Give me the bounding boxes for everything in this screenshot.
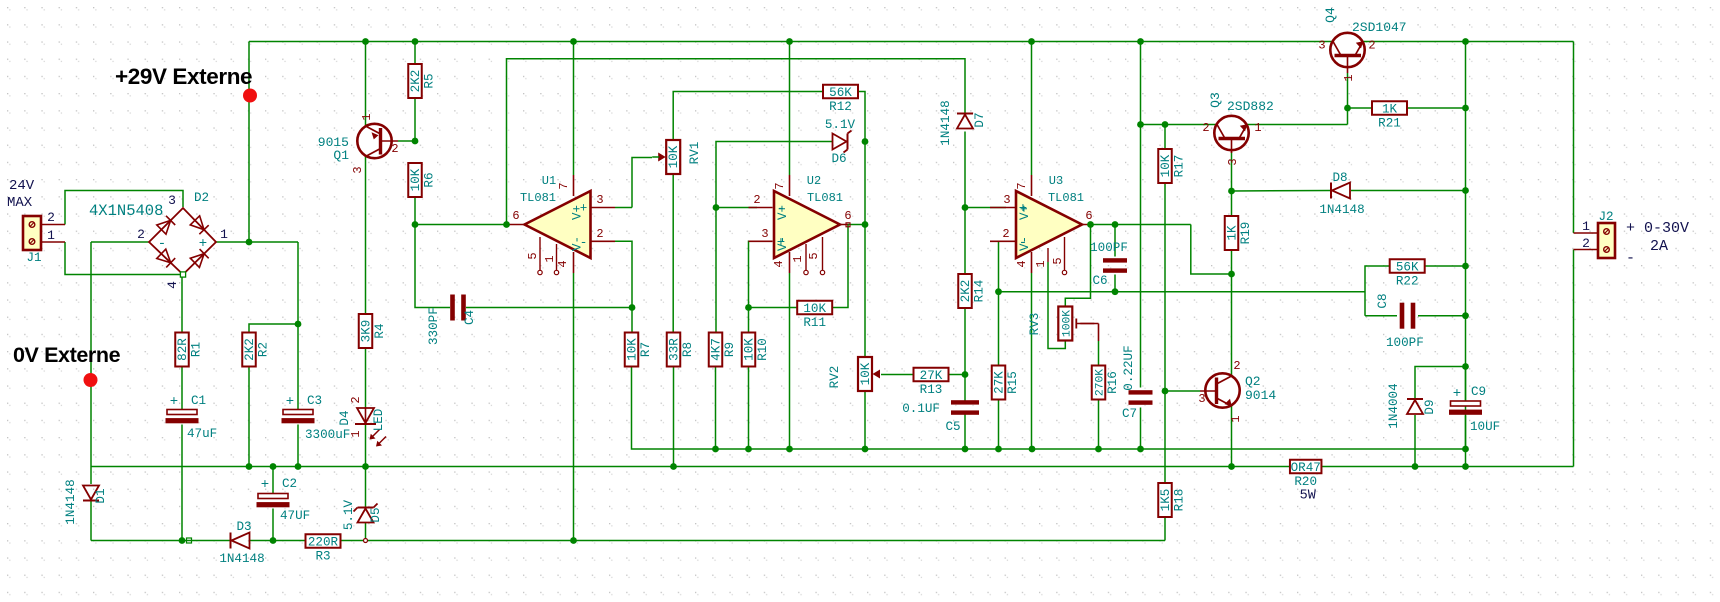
svg-text:1: 1 [1582, 219, 1590, 234]
svg-text:1: 1 [47, 228, 55, 243]
svg-text:+: + [777, 235, 785, 251]
svg-text:R4: R4 [373, 323, 387, 338]
svg-text:TL081: TL081 [1048, 191, 1084, 205]
svg-text:6: 6 [844, 209, 851, 223]
svg-text:2K2: 2K2 [409, 70, 423, 93]
svg-text:TL081: TL081 [520, 191, 556, 205]
svg-text:+: + [170, 394, 178, 410]
svg-text:10K: 10K [743, 338, 757, 361]
svg-text:-: - [158, 236, 166, 252]
svg-text:R8: R8 [681, 342, 695, 357]
svg-text:3: 3 [1318, 39, 1325, 53]
svg-text:3: 3 [1003, 193, 1010, 207]
svg-text:1K: 1K [1382, 103, 1398, 117]
svg-text:4K7: 4K7 [710, 338, 724, 361]
svg-text:R9: R9 [723, 342, 737, 357]
svg-text:3: 3 [168, 193, 176, 208]
svg-text:R1: R1 [190, 342, 204, 357]
svg-text:100PF: 100PF [1386, 336, 1424, 350]
svg-text:2: 2 [391, 142, 398, 156]
svg-text:C3: C3 [307, 394, 322, 408]
svg-text:C6: C6 [1092, 274, 1107, 288]
svg-text:6: 6 [1085, 209, 1092, 223]
svg-text:5.1V: 5.1V [825, 118, 856, 132]
svg-text:D8: D8 [1332, 171, 1347, 185]
svg-text:220R: 220R [308, 536, 339, 550]
svg-text:3: 3 [761, 227, 768, 241]
svg-text:D2: D2 [194, 191, 209, 205]
svg-text:1: 1 [220, 227, 228, 242]
svg-text:4: 4 [556, 260, 570, 267]
svg-text:7: 7 [1015, 182, 1029, 189]
svg-text:R10: R10 [756, 338, 770, 361]
svg-text:10K: 10K [1159, 154, 1173, 177]
svg-text:+: + [261, 477, 269, 493]
svg-text:-: - [1019, 235, 1027, 251]
svg-text:+: + [199, 236, 207, 252]
svg-text:10K: 10K [409, 168, 423, 191]
svg-text:5.1V: 5.1V [342, 499, 356, 530]
svg-text:2: 2 [1368, 39, 1375, 53]
svg-text:C5: C5 [945, 420, 960, 434]
svg-text:1N4148: 1N4148 [1319, 203, 1364, 217]
svg-text:R3: R3 [315, 549, 330, 563]
svg-text:6: 6 [512, 209, 519, 223]
svg-text:2: 2 [137, 227, 145, 242]
svg-text:1: 1 [543, 255, 557, 262]
svg-text:5W: 5W [1300, 488, 1317, 503]
svg-text:7: 7 [773, 182, 787, 189]
svg-text:R18: R18 [1173, 489, 1187, 512]
svg-text:1: 1 [791, 255, 805, 262]
svg-text:9014: 9014 [1245, 388, 1276, 403]
svg-text:2SD1047: 2SD1047 [1352, 20, 1407, 35]
svg-text:U1: U1 [542, 174, 556, 188]
svg-text:330PF: 330PF [427, 307, 441, 345]
svg-text:3300uF: 3300uF [305, 428, 350, 442]
svg-text:0.1UF: 0.1UF [902, 402, 940, 416]
svg-text:3: 3 [351, 166, 365, 173]
svg-text:1N4004: 1N4004 [1387, 383, 1401, 428]
svg-text:D3: D3 [236, 520, 251, 534]
svg-text:4: 4 [1015, 260, 1029, 267]
svg-text:C8: C8 [1376, 293, 1390, 308]
svg-text:2K2: 2K2 [959, 280, 973, 303]
svg-text:1K5: 1K5 [1159, 489, 1173, 512]
svg-text:D4: D4 [338, 410, 352, 425]
svg-text:+: + [1019, 201, 1027, 217]
svg-text:-: - [777, 201, 785, 217]
svg-text:Q3: Q3 [1208, 92, 1223, 108]
svg-text:10K: 10K [667, 145, 681, 168]
svg-text:D7: D7 [973, 112, 987, 127]
svg-text:56K: 56K [1396, 261, 1419, 275]
svg-text:+ 0-30V: + 0-30V [1626, 220, 1689, 237]
svg-text:Q2: Q2 [1245, 374, 1261, 389]
svg-text:C1: C1 [191, 394, 206, 408]
svg-text:2: 2 [1233, 359, 1240, 373]
svg-text:1: 1 [349, 430, 363, 437]
svg-text:0V Externe: 0V Externe [13, 343, 121, 367]
svg-text:R11: R11 [803, 316, 826, 330]
svg-text:2: 2 [1202, 121, 1209, 135]
svg-text:R6: R6 [423, 172, 437, 187]
svg-text:2: 2 [596, 227, 603, 241]
svg-text:100K: 100K [1061, 310, 1073, 337]
svg-text:3: 3 [596, 193, 603, 207]
svg-text:3: 3 [1198, 392, 1205, 406]
svg-text:2SD882: 2SD882 [1227, 99, 1274, 114]
svg-text:R22: R22 [1396, 274, 1419, 288]
svg-text:MAX: MAX [7, 195, 33, 211]
svg-text:R12: R12 [829, 100, 852, 114]
svg-text:RV1: RV1 [688, 142, 702, 165]
svg-text:R17: R17 [1173, 155, 1187, 178]
svg-text:U2: U2 [807, 174, 821, 188]
svg-text:OR47: OR47 [1291, 461, 1321, 475]
svg-text:1: 1 [1254, 121, 1261, 135]
svg-text:U3: U3 [1049, 174, 1063, 188]
svg-text:+: + [1453, 386, 1461, 402]
svg-text:2: 2 [349, 396, 363, 403]
svg-text:100PF: 100PF [1090, 241, 1128, 255]
svg-text:J1: J1 [26, 251, 41, 265]
svg-text:C9: C9 [1471, 385, 1486, 399]
svg-text:2: 2 [1582, 236, 1590, 251]
svg-text:4X1N5408: 4X1N5408 [89, 202, 163, 220]
svg-text:10K: 10K [859, 362, 873, 385]
svg-text:TL081: TL081 [807, 191, 843, 205]
svg-text:R16: R16 [1106, 371, 1120, 394]
svg-text:1K: 1K [1226, 225, 1240, 241]
svg-text:RV2: RV2 [828, 366, 842, 389]
svg-text:+: + [580, 202, 588, 216]
svg-text:2: 2 [1002, 227, 1009, 241]
svg-text:270K: 270K [1095, 369, 1107, 396]
svg-text:D5: D5 [369, 507, 383, 522]
svg-text:1N4148: 1N4148 [939, 100, 953, 145]
svg-text:5: 5 [1051, 257, 1065, 264]
svg-text:C7: C7 [1122, 407, 1137, 421]
svg-text:R2: R2 [257, 342, 271, 357]
svg-text:R5: R5 [423, 73, 437, 88]
svg-text:R14: R14 [973, 280, 987, 303]
svg-text:R7: R7 [639, 342, 653, 357]
svg-text:47uF: 47uF [187, 427, 217, 441]
svg-text:3: 3 [1226, 158, 1240, 165]
svg-text:27K: 27K [993, 371, 1007, 394]
svg-text:R21: R21 [1378, 116, 1401, 130]
svg-text:2: 2 [47, 210, 55, 225]
svg-text:10K: 10K [803, 302, 826, 316]
svg-text:5: 5 [807, 252, 821, 259]
svg-text:1N4148: 1N4148 [219, 552, 264, 566]
svg-text:3K9: 3K9 [360, 320, 374, 343]
svg-text:1N4148: 1N4148 [64, 479, 78, 524]
svg-text:24V: 24V [9, 178, 35, 194]
svg-text:C4: C4 [463, 310, 477, 325]
svg-text:LED: LED [372, 409, 386, 432]
svg-text:1: 1 [1229, 415, 1243, 422]
svg-text:5: 5 [526, 252, 540, 259]
svg-text:J2: J2 [1598, 210, 1613, 224]
svg-text:Q4: Q4 [1323, 7, 1338, 23]
svg-text:33R: 33R [668, 338, 682, 361]
svg-text:10K: 10K [626, 338, 640, 361]
svg-text:RV3: RV3 [1028, 313, 1042, 336]
svg-text:82R: 82R [176, 338, 190, 361]
svg-text:+: + [286, 394, 294, 410]
svg-text:+29V Externe: +29V Externe [115, 64, 252, 89]
svg-text:27K: 27K [920, 369, 943, 383]
svg-text:R15: R15 [1006, 371, 1020, 394]
svg-text:-: - [1626, 250, 1635, 267]
svg-text:4: 4 [165, 281, 180, 289]
svg-text:Q1: Q1 [333, 148, 349, 163]
svg-text:56K: 56K [829, 86, 852, 100]
svg-text:D1: D1 [94, 488, 108, 503]
svg-text:R13: R13 [920, 383, 943, 397]
svg-text:D6: D6 [831, 152, 846, 166]
svg-text:2: 2 [753, 193, 760, 207]
svg-text:7: 7 [557, 182, 571, 189]
svg-text:1: 1 [1342, 74, 1356, 81]
svg-text:1: 1 [360, 113, 374, 120]
svg-text:4: 4 [772, 260, 786, 267]
svg-text:-: - [580, 236, 588, 250]
svg-text:C2: C2 [282, 477, 297, 491]
svg-text:R19: R19 [1239, 222, 1253, 245]
svg-text:2K2: 2K2 [243, 338, 257, 361]
svg-text:2A: 2A [1650, 238, 1668, 255]
svg-text:47UF: 47UF [280, 509, 310, 523]
svg-text:0.22UF: 0.22UF [1122, 345, 1136, 390]
svg-text:D9: D9 [1423, 399, 1437, 414]
svg-text:R20: R20 [1294, 475, 1317, 489]
svg-text:1: 1 [1034, 260, 1048, 267]
svg-text:10UF: 10UF [1470, 420, 1500, 434]
